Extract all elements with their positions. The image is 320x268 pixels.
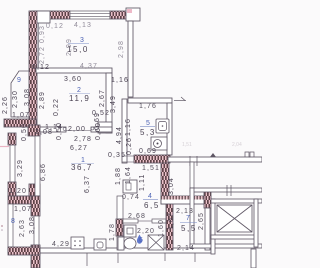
svg-text:0,22: 0,22 xyxy=(53,98,60,116)
svg-text:2,78: 2,78 xyxy=(74,136,92,143)
svg-text:4,94: 4,94 xyxy=(116,126,123,144)
lower left thin wall xyxy=(10,137,15,196)
room8 left wall thin xyxy=(8,204,13,247)
room8 right wall hatch top xyxy=(31,196,40,216)
svg-text:9: 9 xyxy=(17,77,23,84)
room7 top wall xyxy=(161,196,211,204)
exterior left wall hatched xyxy=(29,11,37,133)
fraction bar room5 xyxy=(140,126,155,128)
room8 right wall mid xyxy=(34,216,39,245)
line 1.20 xyxy=(16,195,38,197)
svg-text:2,72: 2,72 xyxy=(39,46,46,64)
vent box xyxy=(123,180,137,193)
room2 bottom wall right xyxy=(91,127,112,132)
svg-text:2,98: 2,98 xyxy=(118,40,125,58)
svg-text:36,7: 36,7 xyxy=(71,163,93,172)
top wall hatched left segment xyxy=(32,11,70,19)
riser tick d xyxy=(194,253,196,262)
svg-text:0,26: 0,26 xyxy=(126,137,133,155)
fraction bar room7 xyxy=(180,222,197,224)
stove icon xyxy=(151,137,167,150)
pink scan line xyxy=(0,146,9,148)
svg-text:2,68: 2,68 xyxy=(128,213,146,220)
svg-text:4,29: 4,29 xyxy=(52,241,70,248)
shaft left wall xyxy=(211,199,215,254)
svg-text:2,63: 2,63 xyxy=(19,219,26,237)
room6 door line xyxy=(138,220,152,222)
corridor wall tick 1 xyxy=(189,156,191,166)
corridor wall bump mark xyxy=(245,152,254,157)
electric box icon xyxy=(71,237,84,249)
room8 right wall hatch bottom xyxy=(31,245,40,268)
fraction bar room1 xyxy=(71,163,94,165)
corridor wall tick 2 xyxy=(196,156,198,166)
svg-text:5,3: 5,3 xyxy=(140,128,156,137)
svg-text:1,11: 1,11 xyxy=(139,173,146,191)
svg-text:3: 3 xyxy=(80,37,86,44)
WC sink icon xyxy=(124,225,136,237)
svg-text:6,27: 6,27 xyxy=(70,145,88,152)
svg-text:0,50: 0,50 xyxy=(21,123,28,141)
water drop xyxy=(137,235,142,244)
svg-text:3,60: 3,60 xyxy=(64,76,82,83)
column top-left xyxy=(36,11,50,23)
svg-text:1,76: 1,76 xyxy=(139,103,157,110)
shaft bottom wall xyxy=(211,235,256,239)
svg-text:3,49: 3,49 xyxy=(110,95,117,113)
svg-text:2,89: 2,89 xyxy=(39,91,46,109)
toilet icon xyxy=(118,237,136,250)
svg-text:1,20: 1,20 xyxy=(9,188,27,195)
kitchen sink icon xyxy=(156,119,169,133)
svg-text:7: 7 xyxy=(186,215,192,222)
elevator block top wall xyxy=(190,188,262,192)
svg-text:4,13: 4,13 xyxy=(74,22,92,29)
kitchen door opening lines xyxy=(122,155,134,157)
svg-text:0,12: 0,12 xyxy=(46,23,64,30)
hatched strip below balcony xyxy=(4,119,36,127)
window in top wall xyxy=(70,11,110,19)
column top-right xyxy=(126,8,140,21)
balcony room9 outline xyxy=(11,71,30,117)
corridor to elevator left wall xyxy=(190,162,194,188)
elevator car X box xyxy=(217,205,252,232)
bottom wall hatched left part xyxy=(8,247,40,255)
svg-text:3,08: 3,08 xyxy=(29,216,36,234)
svg-text:1,16: 1,16 xyxy=(125,118,132,136)
WC wall lower xyxy=(117,236,123,250)
svg-text:8: 8 xyxy=(11,218,17,225)
apartment bottom wall xyxy=(8,248,211,253)
svg-text:5,5: 5,5 xyxy=(181,224,197,233)
fraction bar room2 xyxy=(69,93,90,95)
svg-text:1,51: 1,51 xyxy=(182,142,192,148)
hatch block left upper xyxy=(8,133,16,145)
small marks left edge xyxy=(1,225,3,227)
room2 bottom wall left xyxy=(36,127,66,132)
door opening 2.00 xyxy=(66,130,91,132)
wire pink mark on TR column xyxy=(127,9,132,13)
svg-text:2,67: 2,67 xyxy=(99,89,106,107)
kitchen left wall xyxy=(122,99,127,163)
room7 top wall teeth xyxy=(161,196,211,200)
appliance icon xyxy=(94,239,106,250)
room1 left thin wall upper xyxy=(35,136,40,196)
hall right hatched wall xyxy=(161,155,169,204)
room7 right wall xyxy=(205,208,210,250)
top wall hatched right segment xyxy=(110,11,127,19)
shaft right wall xyxy=(254,199,258,247)
room8 top hatched wall xyxy=(8,196,40,204)
svg-text:1,60: 1,60 xyxy=(158,219,165,237)
svg-text:3,08: 3,08 xyxy=(24,88,31,106)
bottom right wall stub xyxy=(251,249,256,268)
svg-text:1,07: 1,07 xyxy=(14,206,32,213)
shaft top wall xyxy=(211,199,262,203)
svg-text:6,37: 6,37 xyxy=(84,175,91,193)
duct box room2 corner xyxy=(98,122,112,133)
kitchen top wall xyxy=(128,98,172,103)
elevator ticks xyxy=(226,185,228,196)
riser tick c xyxy=(164,253,166,261)
svg-text:1,16: 1,16 xyxy=(111,77,129,84)
svg-text:5: 5 xyxy=(146,120,152,127)
svg-text:4,37: 4,37 xyxy=(80,63,98,70)
svg-text:3,29: 3,29 xyxy=(17,159,24,177)
fraction bar room3 xyxy=(68,43,89,45)
svg-text:0,35: 0,35 xyxy=(108,152,126,159)
svg-text:2,30: 2,30 xyxy=(12,90,19,108)
svg-text:2,26: 2,26 xyxy=(2,96,9,114)
kitchen right wall xyxy=(167,103,172,155)
svg-text:0,60: 0,60 xyxy=(95,122,102,140)
svg-text:2: 2 xyxy=(77,87,83,94)
svg-text:2,04: 2,04 xyxy=(232,142,242,148)
washbasin icon xyxy=(148,235,164,250)
elevator block bottom wall xyxy=(190,244,262,248)
svg-text:0,12: 0,12 xyxy=(32,64,50,71)
room7 right wall hatched top xyxy=(204,189,211,208)
riser tick b xyxy=(117,253,119,263)
room2 right wall xyxy=(106,73,112,133)
svg-text:2,20: 2,20 xyxy=(137,228,155,235)
svg-text:3,04: 3,04 xyxy=(168,177,175,195)
svg-text:0,69: 0,69 xyxy=(139,148,157,155)
entrance door stub xyxy=(174,100,186,102)
svg-text:2,13: 2,13 xyxy=(176,208,194,215)
room3/room2 divider wall xyxy=(36,68,112,73)
svg-text:2,08: 2,08 xyxy=(35,129,53,136)
svg-text:11,9: 11,9 xyxy=(69,94,90,103)
hatch block left lower xyxy=(8,182,16,196)
elevator block left wall xyxy=(190,188,194,248)
room6/7 divider hatched xyxy=(166,196,173,250)
corridor wall triangle mark xyxy=(210,153,216,157)
svg-text:1,67: 1,67 xyxy=(168,212,175,230)
svg-text:1,07: 1,07 xyxy=(12,112,30,119)
WC wall hatched xyxy=(116,219,123,236)
room6 top wall left xyxy=(123,219,138,223)
room6 top wall right xyxy=(152,219,166,223)
svg-text:2,65: 2,65 xyxy=(198,212,205,230)
riser tick a xyxy=(86,253,88,266)
svg-text:2,14: 2,14 xyxy=(177,245,195,252)
svg-text:6: 6 xyxy=(139,237,145,244)
tick o right xyxy=(91,127,94,130)
svg-text:0,50: 0,50 xyxy=(56,122,63,140)
svg-text:1,51: 1,51 xyxy=(142,165,160,172)
corner block left xyxy=(28,125,40,136)
room3 right exterior wall xyxy=(128,21,133,97)
svg-text:0,93: 0,93 xyxy=(39,25,46,43)
svg-text:1,78: 1,78 xyxy=(109,223,116,241)
svg-text:1,88: 1,88 xyxy=(115,167,122,185)
svg-text:1,64: 1,64 xyxy=(125,166,132,184)
svg-text:6,86: 6,86 xyxy=(40,163,47,181)
svg-text:0,74: 0,74 xyxy=(122,194,140,201)
fraction bar room4 xyxy=(143,199,158,201)
svg-text:15,0: 15,0 xyxy=(67,45,89,54)
svg-text:2,00: 2,00 xyxy=(68,126,86,133)
tick o left xyxy=(63,128,66,131)
hatch block alcove right xyxy=(29,184,40,196)
svg-text:6,5: 6,5 xyxy=(144,201,160,210)
room3 inner left line xyxy=(38,23,40,68)
WC wall upper thin xyxy=(117,196,123,219)
kitchen bottom hatched wall xyxy=(134,155,170,163)
svg-text:4: 4 xyxy=(148,193,154,200)
corridor top wall xyxy=(168,157,262,162)
